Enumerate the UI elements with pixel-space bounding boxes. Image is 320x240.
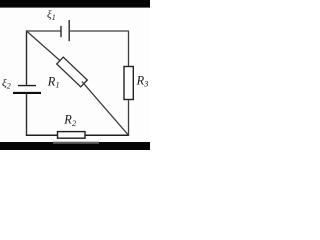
battery ξ2 short plate <box>18 85 36 87</box>
battery ξ2 long plate <box>13 92 41 94</box>
wire: bottom side left (R2 to bottom-left corner) <box>26 134 58 136</box>
wire: left side top (top-left corner to battery ξ2) <box>26 30 28 85</box>
bottom letterbox bar <box>0 142 150 150</box>
battery ξ1 short plate <box>60 26 62 37</box>
page background <box>0 0 150 150</box>
wire: top side right (battery ξ1 to top-right corner) <box>69 30 129 32</box>
top letterbox bar <box>0 0 150 8</box>
resistor R1 body (rotated rectangle on diagonal) <box>57 57 88 87</box>
wire: right side top (top-right corner to R3) <box>128 31 130 67</box>
wire: left side bottom (battery ξ2 to bottom-left corner) <box>26 93 28 136</box>
wire: bottom side right (bottom-right corner to R2) <box>85 134 129 136</box>
bottom bar scan smudge <box>53 142 99 144</box>
battery ξ1 long plate <box>68 20 70 41</box>
resistor R3 body <box>124 67 133 100</box>
wire: diagonal upper (top-left corner to R1) <box>27 31 63 62</box>
wire: diagonal lower (R1 to bottom-right corner) <box>82 82 129 136</box>
wire: top side left (top-left corner to battery ξ1) <box>27 30 62 32</box>
wire: right side bottom (R3 to bottom-right corner) <box>128 100 130 136</box>
resistor R2 body <box>58 132 86 139</box>
